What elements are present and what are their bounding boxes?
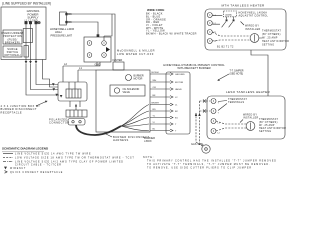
svg-text:T: T — [175, 131, 177, 133]
svg-text:WITH BECKETT BURNER: WITH BECKETT BURNER — [177, 66, 210, 70]
svg-text:L1 L2 GND: L1 L2 GND — [25, 19, 38, 23]
svg-text:(OPTIONAL): (OPTIONAL) — [4, 53, 21, 57]
svg-text:LOW WATER CUT-OFF: LOW WATER CUT-OFF — [117, 52, 154, 56]
svg-text:TERMINALS: TERMINALS — [228, 101, 244, 104]
svg-text:J-BOX: J-BOX — [144, 139, 152, 143]
svg-text:B1: B1 — [175, 118, 178, 120]
svg-text:WIRENUT: WIRENUT — [10, 168, 26, 170]
svg-text:WH: WH — [153, 80, 157, 82]
svg-text:SETTING: SETTING — [259, 130, 271, 133]
svg-text:MOTOR: MOTOR — [175, 82, 184, 84]
svg-text:BK/WH: BK/WH — [152, 103, 160, 105]
svg-text:LINE VOLTAGE SIZE 14 AWG TYPE: LINE VOLTAGE SIZE 14 AWG TYPE TW WIRE — [15, 153, 91, 156]
svg-text:(SEE NOTE): (SEE NOTE) — [230, 73, 244, 76]
svg-text:BK: BK — [68, 12, 72, 16]
svg-text:VALVE: VALVE — [123, 91, 131, 94]
svg-text:L4006A: L4006A — [225, 13, 232, 16]
svg-text:LOW VOLTAGE SIZE 18 AWG TYPE T: LOW VOLTAGE SIZE 18 AWG TYPE TW OR THERM… — [15, 157, 135, 160]
svg-text:WIRE CODE: WIRE CODE — [147, 8, 164, 12]
svg-text:PRESSURE LIMIT: PRESSURE LIMIT — [51, 34, 73, 38]
svg-text:THIS PRIMARY CONTROL HAS THE I: THIS PRIMARY CONTROL HAS THE INSTALLED "… — [147, 160, 277, 163]
svg-text:L1: L1 — [175, 105, 178, 107]
svg-text:T2: T2 — [214, 41, 217, 43]
svg-text:OR: OR — [153, 87, 157, 89]
svg-text:GROUND: GROUND — [175, 74, 185, 76]
svg-text:CIRCUIT CABLE - TC/TCER: CIRCUIT CABLE - TC/TCER — [15, 164, 62, 167]
svg-text:LESO TANKLESS HEATER: LESO TANKLESS HEATER — [226, 90, 270, 94]
svg-text:HIGH: HIGH — [55, 30, 62, 34]
svg-text:L1: L1 — [79, 66, 82, 70]
svg-text:RD: RD — [153, 109, 157, 111]
svg-text:IGNITER: IGNITER — [113, 59, 123, 62]
svg-text:INSTALLER: INSTALLER — [245, 28, 261, 31]
svg-text:(LINE SUPPLIED BY INSTALLER): (LINE SUPPLIED BY INSTALLER) — [2, 2, 51, 6]
svg-text:B2: B2 — [175, 111, 178, 113]
svg-text:TO REMOVE, USE SIDE CUTTER PLI: TO REMOVE, USE SIDE CUTTER PLIERS TO CLI… — [147, 168, 252, 170]
svg-text:GND: GND — [95, 63, 101, 67]
svg-text:McDONNELL & MILLER: McDONNELL & MILLER — [117, 49, 155, 53]
svg-text:TO ACTIVATE "T-T" TERMINALS, ": TO ACTIVATE "T-T" TERMINALS, "T-T" JUMPE… — [147, 163, 270, 166]
svg-text:T: T — [175, 124, 177, 126]
svg-text:MOTOR: MOTOR — [134, 78, 143, 81]
svg-text:BK: BK — [68, 20, 72, 24]
svg-text:L2: L2 — [218, 133, 221, 135]
svg-text:HARNESS: HARNESS — [113, 138, 129, 142]
svg-text:INSTALLER: INSTALLER — [243, 117, 259, 120]
svg-text:T: T — [218, 113, 220, 115]
svg-text:CONNECTOR: CONNECTOR — [49, 121, 70, 125]
svg-text:LINE VOLTAGE SIZE 14/2 AWG TYP: LINE VOLTAGE SIZE 14/2 AWG TYPE CLAY OF … — [15, 161, 124, 164]
svg-text:SETTING: SETTING — [262, 44, 274, 47]
svg-text:T: T — [218, 103, 220, 105]
svg-text:QUICK CONNECT RECEPTACLE: QUICK CONNECT RECEPTACLE — [10, 171, 63, 174]
svg-text:NOTE:: NOTE: — [143, 157, 154, 159]
svg-text:BREAKER): BREAKER) — [5, 40, 20, 44]
svg-text:L2: L2 — [64, 62, 67, 66]
svg-text:GAS SEAL: GAS SEAL — [191, 142, 204, 146]
svg-text:MTH TANKLESS HEATER: MTH TANKLESS HEATER — [221, 3, 265, 7]
svg-text:BK/WH - BLACK W/ WHITE TRACER: BK/WH - BLACK W/ WHITE TRACER — [146, 33, 197, 36]
svg-text:BL/WH: BL/WH — [152, 72, 159, 74]
svg-text:B1 B2 T1 T2: B1 B2 T1 T2 — [217, 46, 234, 49]
svg-text:AQUASTAT CONTROL: AQUASTAT CONTROL — [239, 15, 269, 18]
svg-text:VALVE: VALVE — [175, 88, 182, 91]
svg-text:T1: T1 — [214, 32, 217, 34]
svg-text:RECEPTACLE: RECEPTACLE — [1, 110, 23, 114]
svg-text:L1: L1 — [218, 123, 221, 125]
svg-text:HONEYWELL L4006: HONEYWELL L4006 — [50, 27, 75, 31]
svg-text:SCHEMATIC DIAGRAM LEGEND: SCHEMATIC DIAGRAM LEGEND — [2, 147, 49, 151]
svg-text:L2: L2 — [175, 97, 178, 99]
